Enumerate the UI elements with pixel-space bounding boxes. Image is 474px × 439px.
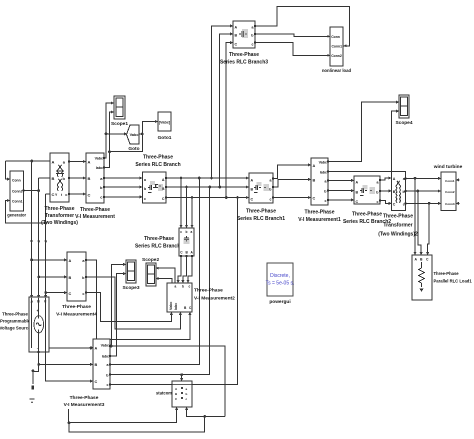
wire Iabc to Scope1 input2 [104, 112, 113, 168]
arrows into RLC Branch2 left [351, 179, 354, 182]
wire Transformer2 out c to wind turbine [406, 202, 441, 204]
wire V-I Measurement4 out a drop to V-I Measurement2 [86, 260, 190, 340]
wire bus3 drop to RLC Branch4 p3 [191, 198, 193, 228]
svg-text:Scope3: Scope3 [122, 285, 139, 291]
svg-text:Conn3: Conn3 [445, 202, 455, 206]
block Scope3 [122, 260, 139, 291]
node Iabc-Goto tap [108, 150, 111, 153]
arrow into VIM4 B [64, 275, 67, 278]
node Vabc tap scope3 [110, 345, 113, 348]
arrow into source top B [37, 295, 40, 298]
svg-text:B: B [52, 176, 55, 181]
arrow into generator Conn [7, 178, 10, 181]
svg-text:C: C [251, 198, 254, 202]
WIRES-OVER (wires visually passing across source block) [30, 295, 47, 371]
svg-text:b: b [186, 392, 188, 396]
svg-text:c: c [189, 285, 191, 289]
wire Goto tag to Goto1 [139, 122, 157, 134]
block Three-Phase Series RLC Branch2 [343, 176, 391, 225]
svg-text:A: A [356, 181, 359, 185]
node statcom top tap [180, 373, 183, 376]
block V-I Measurement2 (rotated) [167, 283, 235, 312]
wire statcom bottom loop B [187, 408, 225, 416]
svg-text:Three-Phase: Three-Phase [383, 214, 413, 220]
wire V-I Measurement2 to Scope2 input2 [156, 279, 172, 284]
wire generator top loop phase A [6, 161, 51, 179]
wire RLC Branch1 out a to V-I Measurement1 A [273, 165, 310, 179]
svg-text:Goto1: Goto1 [158, 135, 172, 141]
node B-VIM4 [37, 276, 40, 279]
svg-text:c: c [144, 197, 146, 201]
wire wind turbine right stub 2 [456, 202, 460, 204]
svg-text:Goto: Goto [128, 146, 139, 152]
wire wind turbine right stub 1 [456, 179, 460, 181]
svg-text:B: B [95, 363, 98, 367]
wire RLC Branch2 outs to Transformer2 [380, 178, 391, 203]
svg-text:c: c [107, 383, 109, 387]
wire phase A through source [31, 298, 33, 348]
svg-text:Conn2: Conn2 [331, 54, 342, 58]
wire VI3 out a riser to bus1 [110, 178, 199, 364]
node ground-jog [32, 369, 35, 372]
wire VI3 out b riser to bus2 [110, 187, 210, 375]
arrows into statcom bottom (up) [175, 407, 178, 410]
arrow into VIM4 C [64, 291, 67, 294]
svg-text:c: c [82, 292, 84, 296]
wire bus line 2 [166, 186, 248, 188]
wire Iabc branch joining Goto1 feed [110, 134, 143, 152]
svg-text:Conn1: Conn1 [12, 200, 23, 204]
wire generator Conn1 bottom loop [6, 201, 46, 224]
block Scope4 [395, 95, 412, 126]
wire phase C vertical [46, 194, 92, 381]
node bus1 dots [180, 177, 183, 180]
svg-text:Series RLC Branch: Series RLC Branch [135, 162, 180, 168]
wire RLC Branch3 riser A [212, 26, 233, 178]
svg-text:Iabc: Iabc [96, 166, 103, 170]
block Three-Phase Parallel RLC Load1 [412, 255, 472, 300]
wire RLC Branch1 out b to V-I Measurement1 B [273, 179, 310, 187]
node conn1-C [44, 222, 47, 225]
arrow into source top C [44, 295, 47, 298]
svg-text:C: C [235, 42, 238, 46]
svg-text:Conn2: Conn2 [12, 190, 23, 194]
wire V-I Measurement3 Iabc riser to Scope3 input2 [110, 274, 125, 356]
arrows into Transformer2 left [389, 177, 392, 180]
block nonlinear load [322, 27, 352, 73]
arrow mid phase C [44, 241, 47, 244]
arrow into source top A [30, 295, 33, 298]
block V-I Measurement (Three-Phase) [75, 153, 115, 220]
node T2 a tap [414, 177, 417, 180]
svg-text:c: c [252, 42, 254, 46]
arrows into Scope4 [396, 101, 399, 104]
svg-text:Series RLC Branch3: Series RLC Branch3 [220, 60, 268, 66]
wire Vabc right extension drop to bottom loop [69, 346, 225, 432]
wire RLC Branch3 riser B [220, 34, 232, 187]
wire bus2 drop to RLC Branch4 p2 [186, 187, 188, 227]
svg-text:C: C [393, 203, 396, 207]
node loopA join [68, 421, 71, 424]
wire statcom bottom loop A [69, 408, 177, 423]
svg-text:Vabc: Vabc [319, 161, 327, 165]
wire phase A vertical [32, 161, 92, 348]
arrows wind turbine right ports [456, 178, 459, 181]
arrows into VIM2 bottom (up) [188, 312, 191, 315]
svg-text:A: A [235, 26, 238, 30]
wire V-I Measurement2 to Scope2 input1 [156, 268, 175, 283]
svg-text:[Vabc]: [Vabc] [159, 121, 171, 125]
block Goto tag Vabc [127, 125, 140, 152]
wire V-I Measurement3 Vabc to Scope3 input1 [111, 264, 125, 346]
node C-VIM4 [44, 291, 47, 294]
wire phase C through source [45, 298, 47, 352]
svg-text:b: b [182, 285, 184, 289]
svg-text:Iabc: Iabc [320, 171, 327, 175]
arrows into Scope3 [123, 263, 126, 266]
svg-text:Conn: Conn [12, 179, 21, 183]
wire RLC Branch3 riser C [226, 43, 232, 198]
wire V-I Measurement4 out b drop to V-I Measurement2 [86, 277, 180, 329]
block Three-Phase Series RLC Branch [135, 155, 180, 204]
arrow into Goto tag [124, 132, 127, 135]
wire Transformer2 out a to wind turbine [406, 177, 441, 179]
svg-text:Vabc: Vabc [169, 302, 173, 310]
wire RLC Branch4 to V-I Measurement2 col2 [183, 257, 187, 282]
node loopB join [203, 415, 206, 418]
wire V-I Measurement1 outs to RLC Branch2 [328, 180, 353, 199]
arrows into VIM3 left [90, 346, 93, 349]
wire bus line 1 [166, 177, 248, 179]
wire load drop 1 [414, 178, 416, 254]
node A-VIM4 [30, 259, 33, 262]
arrow into VIM4 A [64, 258, 67, 261]
block Three-Phase Series RLC Branch1 [237, 173, 285, 222]
svg-text:B: B [235, 34, 238, 38]
arrows into RLC Branch3 left [230, 24, 233, 27]
svg-text:Scope1: Scope1 [111, 121, 128, 127]
svg-text:Three-Phase: Three-Phase [143, 155, 173, 161]
svg-text:Conn: Conn [331, 35, 340, 39]
svg-text:Programmable: Programmable [0, 319, 31, 324]
ground symbol below source [30, 382, 35, 404]
wire statcom top stub [181, 375, 183, 380]
arrows into RLC Branch1 left [246, 177, 249, 180]
svg-text:B: B [393, 190, 396, 194]
wire RLC Branch1 out c to V-I Measurement1 C [273, 197, 310, 199]
svg-text:statcom: statcom [156, 391, 172, 396]
svg-text:Three-Phase: Three-Phase [44, 206, 74, 212]
wire VI3 out c to bus3 riser [110, 198, 238, 385]
arrow into nonlinear load Conn2 [327, 54, 330, 57]
arrow into nonlinear load Conn [327, 35, 330, 38]
svg-text:C: C [162, 197, 165, 201]
wire V-I Measurement to Series RLC Branch rows [104, 178, 142, 197]
svg-text:Discrete,: Discrete, [270, 273, 290, 279]
node A-VIM3 [90, 347, 93, 350]
svg-text:B: B [356, 191, 359, 195]
wire RLC Branch3 out b to nonlinear load Conn [255, 34, 330, 37]
wire RLC Branch4 to V-I Measurement2 col1 [178, 257, 181, 282]
svg-text:b: b [186, 230, 188, 234]
node bus3 dots [191, 196, 194, 199]
svg-text:B: B [251, 188, 254, 192]
svg-text:Transformer: Transformer [383, 223, 412, 229]
wire V-I Measurement1 Vabc to Scope4 input1 [328, 102, 398, 162]
wire Transformer2 out b to wind turbine [406, 190, 441, 192]
svg-text:V-I Measurement1: V-I Measurement1 [298, 217, 341, 223]
wire bus line 3 [166, 197, 248, 199]
wire load drop 2 [418, 191, 421, 254]
svg-text:Three-Phase: Three-Phase [144, 236, 174, 242]
svg-text:C: C [95, 380, 98, 384]
wire generator Conn2 to node B [23, 190, 38, 192]
svg-text:Iabc: Iabc [102, 355, 109, 359]
svg-text:A: A [393, 177, 396, 181]
svg-text:A: A [162, 178, 165, 182]
arrow into Goto1 [155, 120, 158, 123]
svg-text:Vabc: Vabc [130, 133, 139, 137]
node phaseA-gen [30, 160, 33, 163]
svg-text:Three-Phase: Three-Phase [229, 52, 259, 58]
wire RLC Branch3 out c to nonlinear load Conn2 [255, 43, 330, 56]
node T2 c tap [428, 202, 431, 205]
svg-text:nonlinear load: nonlinear load [322, 68, 352, 73]
svg-text:C: C [69, 292, 72, 296]
block generator [7, 171, 26, 218]
svg-text:C: C [88, 193, 91, 198]
svg-text:V-I Measurement4: V-I Measurement4 [56, 312, 97, 318]
svg-text:A: A [69, 259, 72, 263]
svg-text:c: c [403, 203, 405, 207]
block Three-Phase Programmable Voltage Source [0, 297, 49, 352]
wire V-I Measurement4 input C [46, 292, 66, 294]
block Three-Phase Series RLC Branch3 [220, 21, 268, 66]
block Goto1 [158, 112, 172, 141]
node conn2-B [37, 189, 40, 192]
svg-text:Series RLC Branch1: Series RLC Branch1 [237, 216, 285, 222]
svg-text:Ts = 5e-05 s.: Ts = 5e-05 s. [266, 281, 295, 287]
wire bus1 drop to RLC Branch4 p1 [180, 178, 182, 227]
wire load drop 3 [428, 203, 430, 254]
wire phase B through source [38, 298, 40, 371]
node pentagon out joint [141, 133, 144, 136]
svg-text:Transformer: Transformer [45, 213, 74, 219]
svg-text:A: A [52, 159, 55, 164]
svg-text:Three-Phase: Three-Phase [304, 210, 334, 216]
svg-text:generator: generator [7, 213, 26, 218]
arrows into VIM1 left [308, 163, 311, 166]
svg-text:Conn2: Conn2 [445, 190, 455, 194]
svg-text:Scope4: Scope4 [395, 120, 412, 126]
block Three-Phase Series RLC Branch4 (rotated) [135, 228, 194, 256]
block V-I Measurement4 [56, 252, 97, 318]
block V-I Measurement1 [298, 158, 341, 223]
node B-VIM3 [37, 363, 40, 366]
svg-text:V-I Measurement: V-I Measurement [75, 214, 115, 220]
svg-text:wind turbine: wind turbine [433, 164, 463, 170]
wire Vabc branch to Goto tag [106, 133, 126, 135]
wire V-I Measurement4 input A [32, 259, 66, 261]
arrow into nonlinear load Conn1 right side [343, 44, 346, 47]
svg-text:a: a [191, 230, 193, 234]
wire Vabc to Scope1 input1 [104, 103, 113, 158]
wire V-I Measurement4 out c drop to V-I Measurement2 [86, 293, 171, 322]
port nubs on output edges [22, 25, 406, 386]
svg-text:c: c [180, 230, 182, 234]
wire transformer to V-I Measurement rows [69, 162, 85, 195]
svg-text:V-I Measurement2: V-I Measurement2 [194, 296, 235, 302]
svg-text:A: A [88, 159, 91, 164]
wire V-I Measurement1 Iabc to Scope4 input2 [328, 111, 398, 171]
svg-text:V-I Measurement3: V-I Measurement3 [64, 402, 105, 408]
node Vabc-tap [105, 133, 108, 136]
svg-text:powergui: powergui [269, 299, 290, 305]
arrow into statcom top [180, 378, 183, 381]
arrow into generator Conn1 [7, 199, 10, 202]
svg-text:Scope2: Scope2 [142, 257, 159, 263]
wire RLC Branch3 out a to nonlinear load Conn1 [255, 6, 350, 46]
svg-text:Vabc: Vabc [95, 157, 103, 161]
svg-text:B: B [88, 176, 91, 181]
arrows into VIM2 top [177, 280, 180, 283]
arrows into RLC Branch left [140, 177, 143, 180]
block statcom [156, 381, 192, 407]
svg-text:B: B [69, 276, 72, 280]
block Scope2 [142, 257, 159, 286]
svg-text:A: A [251, 179, 254, 183]
svg-text:Three-Phase: Three-Phase [2, 312, 28, 317]
svg-text:Three-Phase: Three-Phase [246, 209, 276, 215]
arrows into Scope2 (pointing left) [156, 267, 159, 270]
svg-text:Parallel RLC Load1: Parallel RLC Load1 [434, 279, 473, 284]
svg-text:A: A [95, 347, 98, 351]
arrow into Scope1 in1 [111, 101, 114, 104]
block V-I Measurement3 [64, 339, 110, 408]
svg-text:Vabc: Vabc [101, 344, 109, 348]
arrow into Scope1 in2 [111, 110, 114, 113]
wire phase B vertical with transformer stub and ground jog [33, 178, 50, 382]
svg-text:C: C [356, 200, 359, 204]
svg-text:Three-Phase: Three-Phase [434, 271, 460, 276]
svg-text:Conn1: Conn1 [331, 45, 342, 49]
svg-text:(Two Windings)2: (Two Windings)2 [378, 232, 418, 238]
svg-text:Three-Phase: Three-Phase [352, 212, 382, 218]
svg-text:Three-Phase: Three-Phase [70, 395, 99, 401]
svg-text:c: c [325, 199, 327, 203]
transformer T2 Three-Phase Transformer (Two Windings)1 [378, 172, 418, 238]
svg-text:Voltage Source: Voltage Source [0, 326, 31, 331]
arrow mid phase A [30, 241, 33, 244]
svg-text:a: a [175, 285, 177, 289]
svg-text:Series RLC Branch4: Series RLC Branch4 [135, 244, 183, 250]
block Scope1 [111, 96, 128, 127]
svg-text:c: c [377, 200, 379, 204]
svg-text:B: B [313, 179, 316, 183]
svg-text:A: A [313, 164, 316, 168]
arrow mid phase B [37, 241, 40, 244]
arrows into wind turbine left [438, 177, 441, 180]
svg-text:c: c [270, 198, 272, 202]
svg-text:Three-Phase: Three-Phase [62, 304, 91, 310]
svg-text:Iabc: Iabc [174, 303, 178, 310]
arrows into VIM left [83, 160, 86, 163]
svg-text:Three-Phase: Three-Phase [194, 288, 223, 294]
wire V-I Measurement4 input B [39, 276, 66, 278]
svg-text:Conn1: Conn1 [445, 179, 455, 183]
node T2 b tap [416, 190, 419, 193]
block wind turbine [433, 164, 463, 211]
arrows into RLC load top [414, 252, 417, 255]
wire RLC Branch4 to V-I Measurement2 col3 [188, 257, 192, 282]
block powergui [266, 263, 295, 305]
svg-text:Three-Phase: Three-Phase [80, 207, 110, 213]
arrows into RLC Branch4 top [180, 225, 183, 228]
transformer T1 Three-Phase Transformer (Two Windings) [41, 153, 78, 226]
node bus2 dots [185, 186, 188, 189]
wire phase B branch to V-I Measurement3 B [39, 363, 92, 365]
svg-text:C: C [313, 197, 316, 201]
